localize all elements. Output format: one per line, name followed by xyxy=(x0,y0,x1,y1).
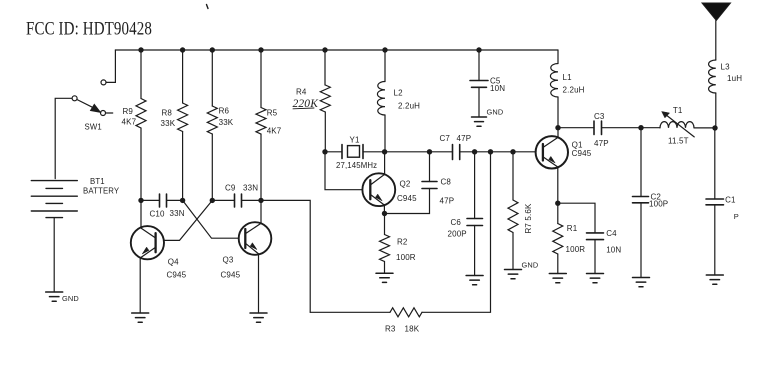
wire R6 node to Q4 base xyxy=(164,200,213,240)
svg-text:R5: R5 xyxy=(267,109,278,118)
svg-text:47P: 47P xyxy=(457,134,472,143)
svg-text:GND: GND xyxy=(62,294,79,303)
svg-text:C10: C10 xyxy=(150,209,166,218)
svg-text:1uH: 1uH xyxy=(727,74,742,83)
svg-text:Q4: Q4 xyxy=(168,257,179,266)
svg-text:C1: C1 xyxy=(725,195,736,204)
battery BT1 xyxy=(31,177,120,218)
wire V+ top rail xyxy=(115,49,558,51)
node rail/R8 xyxy=(180,47,185,52)
wire Y1 node to Q2 base xyxy=(325,152,362,190)
svg-text:SW1: SW1 xyxy=(85,122,102,131)
ground battery xyxy=(46,292,79,303)
svg-text:R6: R6 xyxy=(219,106,230,115)
node R4 / Y1 / Q2 base xyxy=(322,149,327,154)
svg-text:C9: C9 xyxy=(225,184,236,193)
resistor R2 100R xyxy=(380,214,416,274)
svg-text:R1: R1 xyxy=(567,224,578,233)
ground R7 xyxy=(505,261,539,279)
node rail/R5 xyxy=(258,47,263,52)
svg-text:R8: R8 xyxy=(162,108,173,117)
node rail/L2 xyxy=(382,47,387,52)
node Q2 emitter / C8 / R2 xyxy=(382,211,387,216)
svg-text:C8: C8 xyxy=(441,178,452,187)
node Q3 collector / R5 / C9 / R3 loop xyxy=(258,198,263,203)
ground C5 xyxy=(472,108,504,127)
capacitor C10 33N xyxy=(141,194,185,218)
ground Q4 emitter xyxy=(132,313,149,322)
resistor R1 100R xyxy=(553,203,585,273)
node C8 top xyxy=(427,149,432,154)
svg-text:33K: 33K xyxy=(161,119,176,128)
svg-text:C945: C945 xyxy=(221,271,241,280)
ground C2 xyxy=(633,278,650,287)
node C3 / C2 / T1 xyxy=(638,125,643,130)
capacitor C7 47P xyxy=(440,134,472,160)
svg-text:FCC ID: HDT90428: FCC ID: HDT90428 xyxy=(26,19,152,40)
ground R1 xyxy=(549,274,566,283)
inductor L2 2.2uH xyxy=(377,50,420,152)
svg-text:R7 5.6K: R7 5.6K xyxy=(524,203,533,233)
capacitor C3 47P xyxy=(558,112,641,148)
wire Q3 collector node to R3 loop xyxy=(261,200,310,312)
svg-text:Y1: Y1 xyxy=(350,135,360,144)
node R8 / X-coupling to Q3 base xyxy=(180,198,185,203)
node Q4 collector / R9 / C10 xyxy=(138,198,143,203)
inductor L3 1uH xyxy=(709,60,743,128)
node R6 / C9 / X-coupling to Q4 base xyxy=(210,198,215,203)
svg-text:T1: T1 xyxy=(673,106,683,115)
resistor R5 4K7 xyxy=(256,50,282,200)
transistor Q4 C945 xyxy=(131,200,187,313)
svg-text:P: P xyxy=(734,212,739,221)
ground Q3 emitter xyxy=(250,313,267,322)
svg-text:47P: 47P xyxy=(594,139,609,148)
svg-text:GND: GND xyxy=(522,261,539,270)
capacitor C5 10N xyxy=(470,50,505,117)
node R7 top xyxy=(510,149,515,154)
svg-text:27,145MHz: 27,145MHz xyxy=(336,161,377,170)
node rail/C5 xyxy=(476,47,481,52)
resistor R9 4K7 xyxy=(122,50,147,200)
svg-text:33N: 33N xyxy=(243,184,258,193)
svg-text:C945: C945 xyxy=(397,194,417,203)
wire battery - to ground xyxy=(53,218,55,292)
wire Q2 collector node to C7 xyxy=(385,151,453,153)
capacitor C9 33N xyxy=(212,184,261,207)
svg-text:33K: 33K xyxy=(219,118,234,127)
svg-text:200P: 200P xyxy=(448,230,467,239)
capacitor C1 xyxy=(706,128,739,275)
resistor R4 220K xyxy=(293,50,331,152)
crystal Y1 27.145MHz xyxy=(325,135,385,170)
wire R8 node to Q3 base xyxy=(183,200,239,238)
svg-text:R9: R9 xyxy=(123,107,134,116)
svg-text:R3: R3 xyxy=(385,325,396,334)
svg-text:BT1: BT1 xyxy=(90,177,105,186)
svg-text:Q3: Q3 xyxy=(223,256,234,265)
svg-text:100R: 100R xyxy=(396,253,416,262)
node L1 / Q1 collector / C3 xyxy=(555,125,560,130)
svg-text:4K7: 4K7 xyxy=(267,127,282,136)
resistor R7 5.6K xyxy=(508,152,533,270)
transistor Q3 C945 xyxy=(221,200,272,313)
svg-text:11.5T: 11.5T xyxy=(668,136,689,145)
svg-text:BATTERY: BATTERY xyxy=(83,187,120,196)
svg-text:10N: 10N xyxy=(490,84,505,93)
svg-text:L1: L1 xyxy=(563,73,573,82)
svg-text:R2: R2 xyxy=(397,237,408,246)
svg-text:18K: 18K xyxy=(405,325,420,334)
svg-text:R4: R4 xyxy=(296,88,307,97)
svg-text:C945: C945 xyxy=(167,271,187,280)
capacitor C2 100P xyxy=(633,128,669,278)
node Q1 emitter / R1 / C4 xyxy=(555,201,560,206)
antenna xyxy=(702,3,731,60)
svg-text:100R: 100R xyxy=(566,245,586,254)
node C6 top xyxy=(472,149,477,154)
svg-text:33N: 33N xyxy=(170,209,185,218)
svg-text:C945: C945 xyxy=(572,149,592,158)
ground C1 xyxy=(706,275,723,284)
svg-text:L3: L3 xyxy=(721,63,731,72)
wire rail to switch xyxy=(106,50,115,82)
resistor R6 33K xyxy=(207,50,233,200)
svg-text:100P: 100P xyxy=(649,199,668,208)
wire C7 to Q1 base xyxy=(460,151,536,153)
transistor Q2 C945 xyxy=(362,152,417,214)
stray mark xyxy=(207,5,209,9)
svg-text:GND: GND xyxy=(487,108,504,117)
svg-text:L2: L2 xyxy=(394,89,404,98)
resistor R8 33K xyxy=(161,50,188,200)
capacitor C6 200P xyxy=(448,152,483,276)
ground C6 xyxy=(466,276,483,285)
svg-text:Q2: Q2 xyxy=(400,180,411,189)
resistor R3 18K xyxy=(310,152,490,334)
node T1 / L3 / C1 xyxy=(712,125,717,130)
switch SW1 xyxy=(72,80,113,131)
svg-text:2.2uH: 2.2uH xyxy=(563,86,585,95)
capacitor C8 47P xyxy=(385,152,455,214)
svg-text:C7: C7 xyxy=(440,134,451,143)
node rail/R4 xyxy=(322,47,327,52)
node rail/R9 xyxy=(138,47,143,52)
svg-text:C4: C4 xyxy=(606,229,617,238)
svg-text:C3: C3 xyxy=(594,112,605,121)
svg-text:C6: C6 xyxy=(451,218,462,227)
capacitor C4 10N xyxy=(558,203,622,273)
wire switch to battery + xyxy=(55,98,72,178)
svg-text:2.2uH: 2.2uH xyxy=(398,101,420,110)
transistor Q1 C945 xyxy=(536,128,592,204)
node R3 loop top xyxy=(488,149,493,154)
ground C4 xyxy=(587,274,604,283)
inductor T1 11.5T tunable xyxy=(641,106,715,145)
inductor L1 2.2uH xyxy=(550,50,584,128)
node rail/R6 xyxy=(210,47,215,52)
svg-text:47P: 47P xyxy=(440,196,455,205)
ground R2 xyxy=(376,273,393,282)
node L2 / Q2 collector / Y1 xyxy=(382,149,387,154)
svg-text:10N: 10N xyxy=(606,246,621,255)
svg-text:4K7: 4K7 xyxy=(122,117,137,126)
